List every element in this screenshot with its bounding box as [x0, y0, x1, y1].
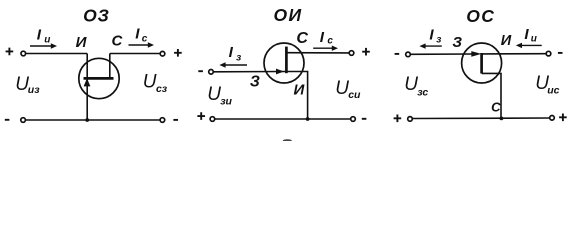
transistor VT1 source lead	[86, 54, 88, 78]
current label I_u	[524, 26, 537, 45]
transistor VT2 source lead	[286, 72, 307, 120]
svg-text:И: И	[294, 82, 306, 99]
svg-text:I: I	[37, 27, 42, 44]
terminal top-right	[160, 51, 165, 56]
svg-text:из: из	[28, 84, 40, 96]
minus sign gate input	[198, 70, 203, 72]
plus sign bottom-right	[559, 114, 567, 122]
plus sign drain output	[362, 48, 370, 56]
svg-text:I: I	[135, 26, 140, 43]
voltage label U_uc	[535, 73, 559, 96]
minus sign bottom-left	[5, 119, 10, 121]
current label I_z	[429, 27, 441, 46]
terminal source output	[546, 51, 551, 56]
current label I_u	[37, 27, 51, 46]
svg-text:и: и	[531, 34, 537, 45]
junction drain to rail	[500, 117, 504, 121]
terminal bottom-left	[408, 117, 413, 122]
wire bottom rail	[26, 119, 160, 121]
svg-text:U: U	[335, 78, 349, 99]
node label I (source)	[294, 82, 306, 99]
svg-text:с: с	[327, 36, 333, 47]
current arrow I_z	[419, 43, 441, 48]
transistor VT1 circle	[79, 58, 119, 98]
voltage label U_zc	[404, 74, 428, 98]
wire gate input	[214, 71, 287, 73]
current label I_c	[320, 29, 334, 47]
svg-text:С: С	[111, 32, 123, 49]
transistor VT3 gate arrow	[472, 52, 481, 57]
current arrow I_c	[313, 46, 338, 51]
svg-text:I: I	[229, 44, 234, 61]
current label I_c	[135, 26, 148, 45]
label OZ title	[83, 5, 109, 25]
transistor VT1 drain lead	[109, 54, 111, 78]
wire bottom rail	[413, 117, 550, 120]
transistor VT2 gate arrow	[276, 69, 283, 74]
voltage label U_ci	[335, 78, 361, 101]
terminal bottom-left	[210, 117, 215, 122]
svg-text:И: И	[501, 33, 512, 49]
terminal bottom-right	[550, 116, 555, 121]
minus sign bottom-right	[173, 119, 178, 121]
svg-text:ОЗ: ОЗ	[83, 5, 109, 25]
node label I (source)	[501, 33, 512, 49]
transistor VT1 channel	[84, 77, 114, 80]
svg-text:I: I	[429, 27, 434, 44]
terminal gate input	[209, 70, 214, 75]
svg-text:С: С	[296, 30, 308, 47]
svg-text:I: I	[320, 29, 325, 46]
svg-text:и: и	[44, 35, 50, 46]
transistor VT2 channel	[285, 47, 288, 74]
node label C (drain)	[111, 32, 123, 49]
voltage label U_cz	[143, 72, 168, 96]
svg-text:I: I	[524, 26, 529, 43]
plus sign bottom-left	[394, 115, 402, 123]
junction source to rail	[306, 117, 310, 121]
current label I_z	[229, 44, 242, 63]
svg-text:з: з	[236, 52, 241, 63]
svg-text:U: U	[143, 72, 157, 93]
transistor VT1 gate arrow	[84, 79, 90, 86]
transistor VT3 source lead	[482, 53, 546, 55]
caption fragment below	[283, 139, 292, 142]
svg-text:си: си	[348, 89, 361, 101]
transistor VT1 gate lead	[86, 79, 88, 120]
terminal bottom-right	[351, 117, 356, 122]
svg-text:ис: ис	[547, 84, 559, 96]
svg-text:с: с	[142, 34, 148, 45]
svg-text:U: U	[207, 84, 221, 105]
minus sign gate input	[395, 53, 400, 55]
transistor VT3 channel	[480, 53, 483, 74]
node label Z (gate)	[452, 34, 462, 51]
terminal bottom-right	[160, 118, 165, 123]
svg-text:С: С	[491, 100, 501, 115]
plus sign bottom-left	[197, 112, 205, 120]
wire gate input	[410, 53, 472, 55]
svg-text:З: З	[452, 34, 462, 51]
svg-text:ОИ: ОИ	[274, 5, 303, 25]
voltage label U_iz	[15, 74, 40, 96]
plus sign top-left	[6, 48, 14, 56]
transistor VT2 circle	[264, 43, 304, 83]
junction gate to rail	[85, 118, 89, 122]
label OC title	[466, 6, 495, 26]
svg-text:ОС: ОС	[466, 6, 495, 26]
transistor VT3 drain lead	[482, 73, 501, 118]
terminal gate input	[406, 52, 411, 57]
minus sign bottom-right	[362, 118, 367, 120]
terminal bottom-left	[21, 118, 26, 123]
svg-text:зс: зс	[417, 86, 428, 98]
node label Z (gate)	[250, 73, 260, 90]
node label C (drain)	[491, 100, 501, 115]
current arrow I_u	[516, 43, 542, 48]
label OI title	[274, 5, 303, 25]
minus sign source output	[558, 52, 563, 54]
plus sign top-right	[174, 49, 182, 57]
svg-text:зи: зи	[220, 96, 232, 108]
terminal top-left	[21, 51, 26, 56]
wire bottom rail	[215, 118, 351, 120]
svg-text:U: U	[404, 74, 418, 95]
wire source input	[26, 53, 87, 55]
svg-text:И: И	[76, 34, 88, 51]
svg-text:з: з	[436, 35, 441, 46]
transistor VT3 circle	[462, 43, 502, 83]
voltage label U_zi	[207, 84, 232, 108]
current arrow I_u	[30, 43, 57, 48]
svg-text:сз: сз	[156, 83, 168, 95]
current arrow I_c	[129, 42, 155, 47]
node label I (source)	[76, 34, 88, 51]
node label C (drain)	[296, 30, 308, 47]
transistor VT2 drain lead	[286, 52, 349, 54]
wire drain output	[110, 53, 160, 55]
svg-text:З: З	[250, 73, 260, 90]
terminal drain output	[349, 51, 354, 56]
current arrow I_z	[219, 62, 247, 67]
